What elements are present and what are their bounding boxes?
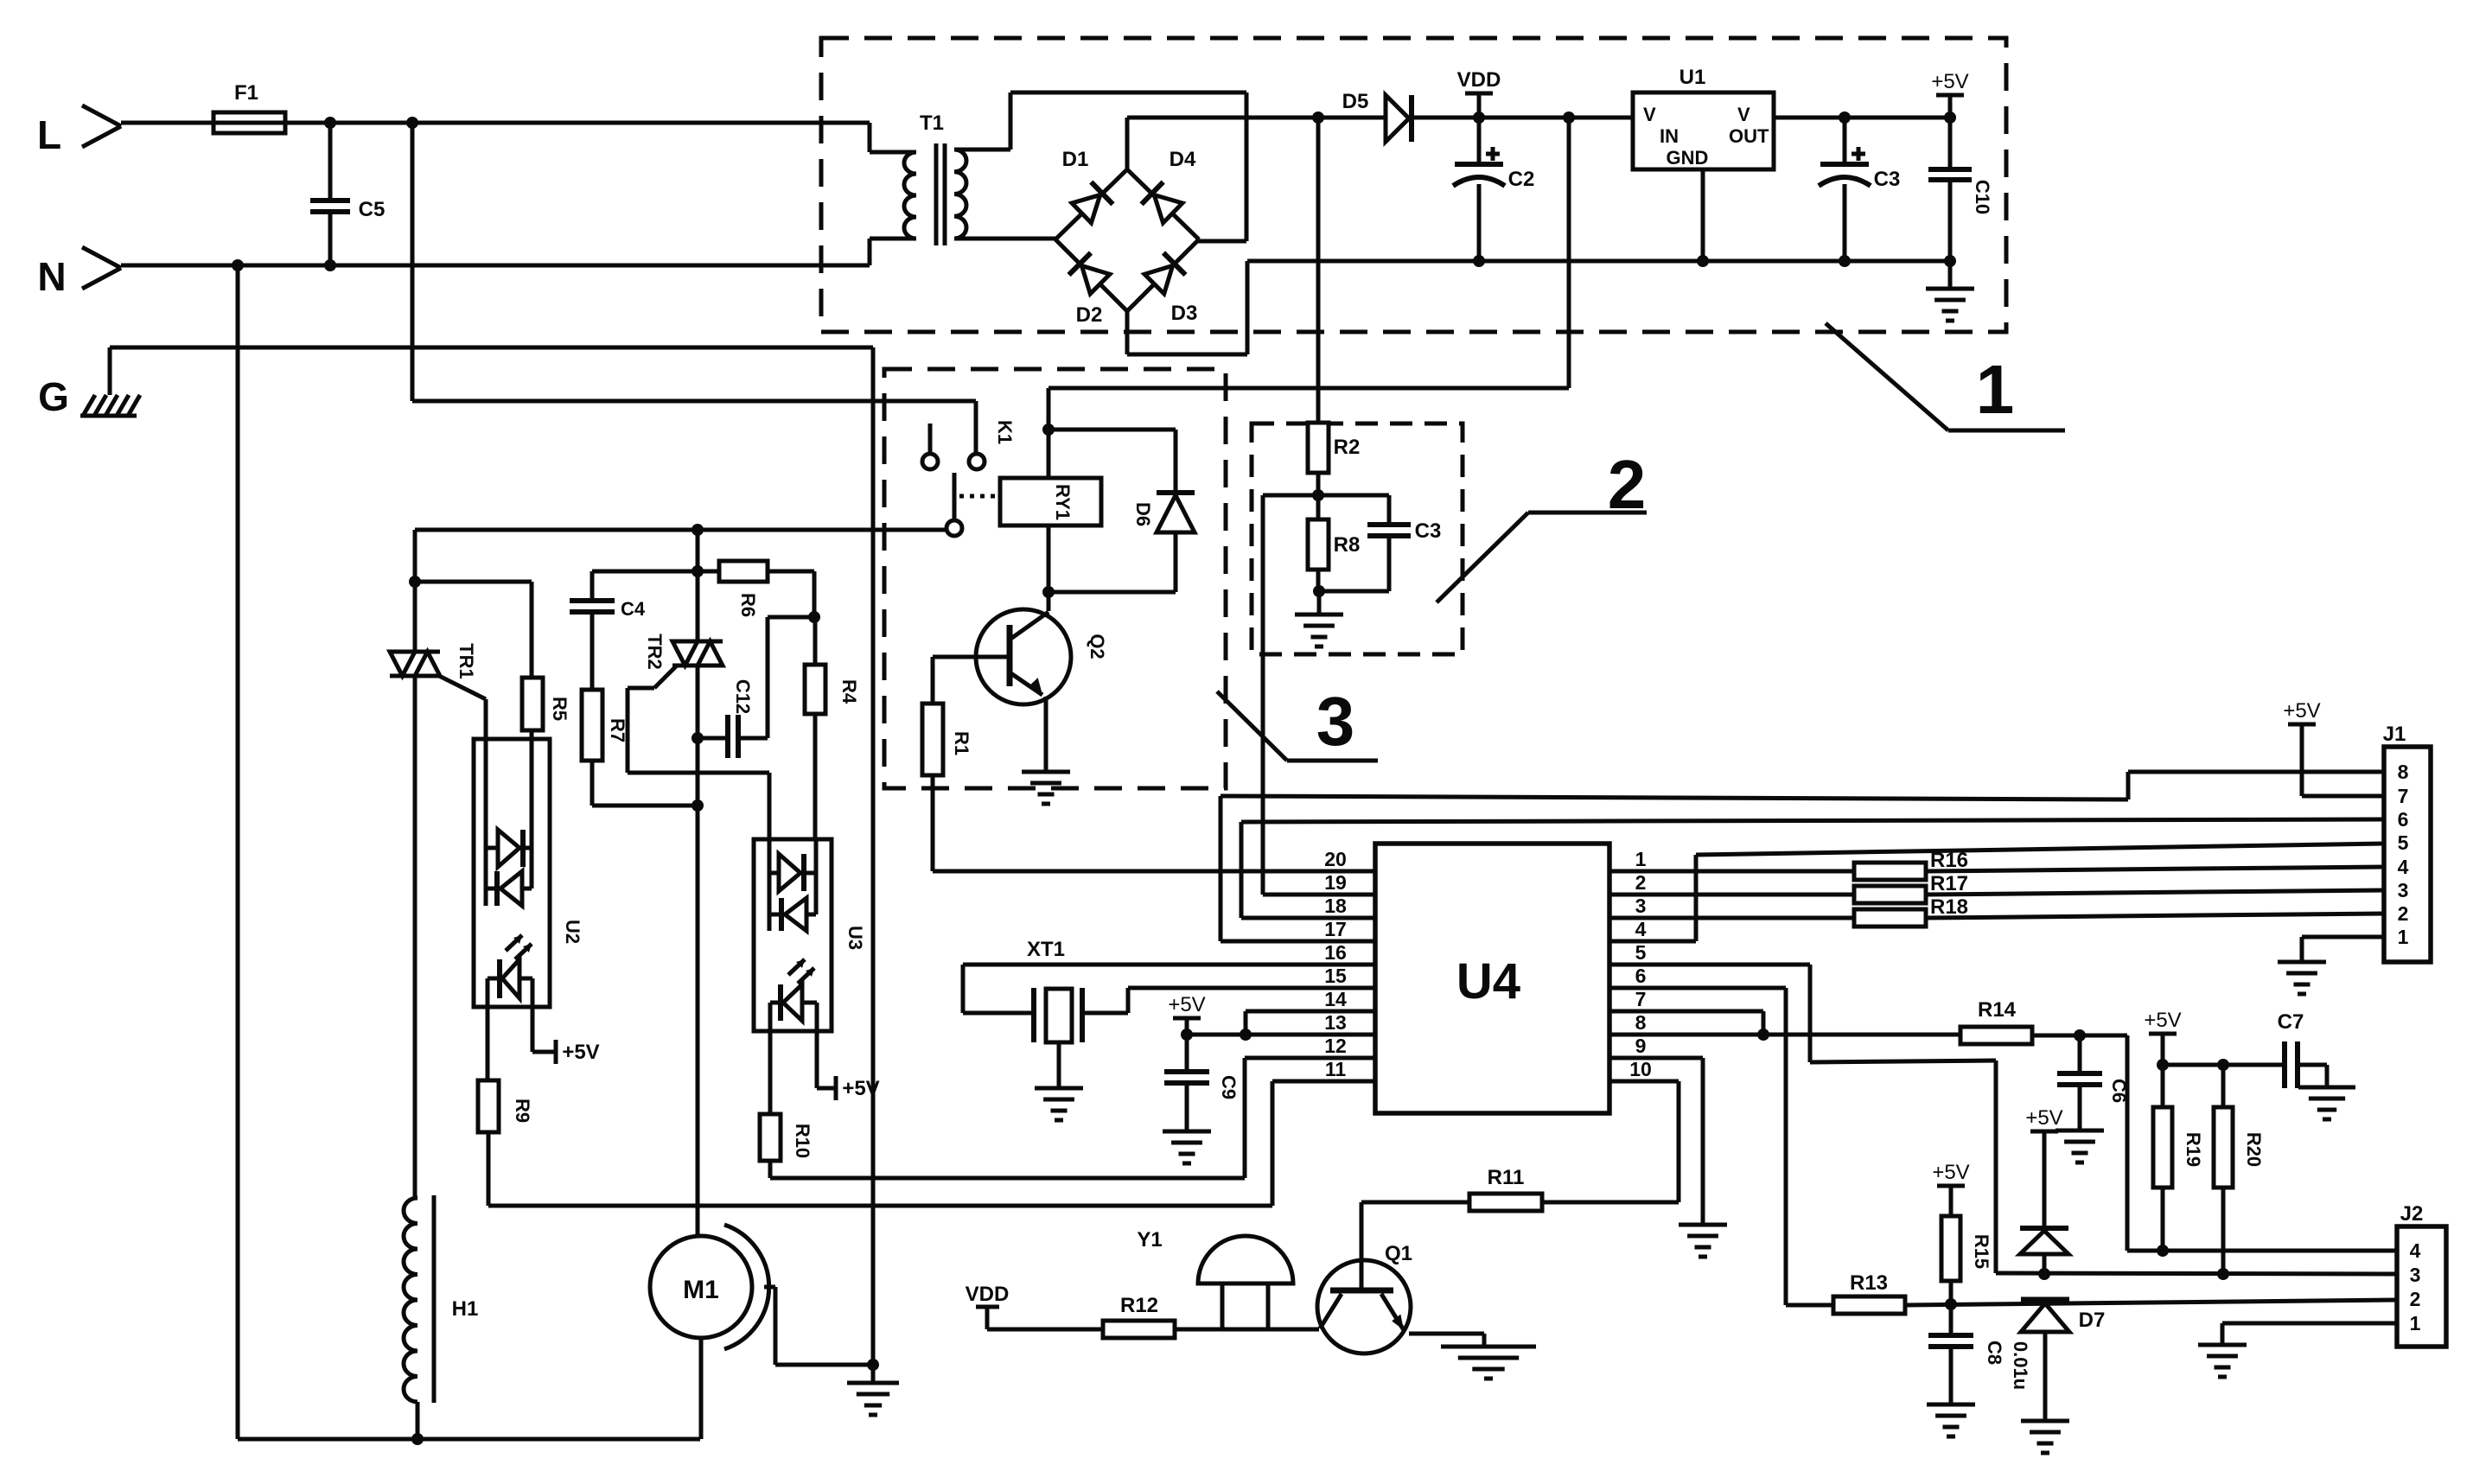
svg-text:V: V (1643, 104, 1656, 125)
dotted link to relay (959, 494, 998, 499)
svg-text:2: 2 (2398, 902, 2409, 925)
svg-text:M1: M1 (683, 1276, 719, 1304)
wire relay to Q2 (1047, 525, 1051, 611)
svg-text:6: 6 (2398, 808, 2409, 831)
wire relay coil top (1047, 388, 1051, 478)
resistor R13 (1833, 1296, 1905, 1314)
wire pin7 (1609, 1010, 1763, 1014)
svg-text:3: 3 (1316, 683, 1355, 760)
diode D2 (1069, 253, 1112, 296)
wire VDD rail (1127, 116, 1386, 120)
svg-text:+5V: +5V (2283, 699, 2320, 723)
wire secondary bottom (954, 237, 1055, 241)
svg-text:5: 5 (2398, 831, 2409, 854)
svg-text:C6: C6 (2108, 1079, 2130, 1103)
svg-text:+5V: +5V (1931, 70, 1968, 93)
wire U2 led cathode (488, 977, 500, 981)
svg-text:R10: R10 (792, 1124, 813, 1158)
svg-text:C10: C10 (1972, 180, 1993, 214)
svg-text:13: 13 (1324, 1011, 1347, 1034)
svg-text:D4: D4 (1170, 148, 1196, 171)
relay RY1 (1000, 478, 1101, 525)
wire pin2 to R17 (1609, 893, 1854, 897)
svg-text:R5: R5 (549, 697, 570, 721)
svg-text:0.01u: 0.01u (2010, 1341, 2031, 1390)
label 3 pointer (1217, 691, 1287, 761)
wire section1 ground rail (1247, 259, 1950, 264)
ground crystal (1057, 1042, 1061, 1088)
wire pin3 to R18 (1609, 916, 1854, 920)
resistor R19 (2161, 1065, 2165, 1107)
wire pin10 to R11 (1609, 1080, 1679, 1084)
svg-text:4: 4 (2398, 856, 2409, 878)
svg-text:C3: C3 (1874, 168, 1901, 191)
svg-text:R13: R13 (1850, 1271, 1888, 1295)
svg-text:R7: R7 (607, 718, 628, 742)
svg-text:D2: D2 (1076, 303, 1103, 327)
resistor R18 (1854, 909, 1926, 927)
svg-text:R11: R11 (1488, 1166, 1525, 1189)
wire R9 to pin11 rail (487, 1132, 491, 1206)
svg-text:R14: R14 (1978, 998, 2017, 1022)
buzzer Y1 (1198, 1236, 1293, 1283)
capacitor C8 (1949, 1304, 1954, 1335)
svg-text:Y1: Y1 (1137, 1228, 1162, 1252)
svg-text:1: 1 (2410, 1312, 2421, 1334)
wire Q1 emitter to gnd (1409, 1332, 1484, 1336)
triac TR1 (413, 582, 417, 652)
svg-text:R8: R8 (1334, 533, 1361, 557)
svg-text:G: G (38, 374, 69, 419)
resistor R7 (590, 612, 595, 690)
ground M1 frame (847, 1383, 899, 1415)
diode D1 (1071, 182, 1113, 225)
wire N return rail (236, 265, 240, 1439)
optocoupler U2 (474, 739, 550, 1007)
svg-text:16: 16 (1324, 941, 1347, 964)
optocoupler U3 (754, 839, 832, 1031)
resistor R15 (1941, 1216, 1960, 1281)
svg-text:R18: R18 (1930, 895, 1968, 919)
transformer T1 (904, 152, 916, 239)
power symbol VDD (1477, 93, 1482, 118)
wire VDD to relay (1567, 118, 1571, 388)
resistor R12 (1103, 1321, 1175, 1338)
svg-text:C9: C9 (1218, 1075, 1240, 1099)
svg-text:U3: U3 (845, 926, 866, 950)
svg-text:C12: C12 (732, 679, 754, 714)
svg-text:+5V: +5V (2025, 1106, 2062, 1130)
resistor R20 (2221, 1065, 2226, 1107)
svg-text:C4: C4 (621, 598, 646, 620)
resistor R14 (1960, 1027, 2032, 1044)
fuse F1 (214, 112, 285, 133)
svg-text:+5V: +5V (562, 1041, 599, 1064)
svg-text:TR1: TR1 (456, 643, 477, 679)
svg-text:VDD: VDD (1457, 68, 1501, 92)
wire TR1 gate (439, 676, 486, 699)
svg-text:2: 2 (1608, 446, 1647, 523)
svg-text:R9: R9 (512, 1099, 533, 1123)
power symbol +5V r2 (2025, 1106, 2062, 1131)
svg-text:+5V: +5V (1932, 1161, 1969, 1184)
resistor R1 (931, 657, 935, 704)
svg-text:R2: R2 (1334, 436, 1361, 459)
wire divider node (1316, 473, 1321, 495)
svg-text:F1: F1 (234, 81, 258, 105)
capacitor C6 (2078, 1035, 2082, 1073)
crystal XT1 (963, 963, 1375, 967)
svg-text:1: 1 (1635, 848, 1647, 870)
label 2 pointer (1437, 513, 1528, 602)
mcu U4 (1375, 844, 1609, 1113)
svg-text:4: 4 (1635, 918, 1647, 940)
resistor R10 (760, 1114, 781, 1161)
svg-text:C8: C8 (1984, 1341, 2005, 1365)
wire Q2 emitter to gnd (1044, 697, 1048, 772)
wire pin6 to R13 (1609, 986, 1786, 990)
wire L branch down to switch (411, 123, 415, 401)
svg-text:+5V: +5V (842, 1077, 879, 1100)
wire bridge dc to R2 (1316, 118, 1321, 423)
svg-text:18: 18 (1324, 895, 1347, 917)
svg-text:T1: T1 (920, 111, 944, 135)
ground (1948, 261, 1953, 289)
switch K1 (928, 424, 933, 454)
wire G rail (108, 347, 112, 395)
capacitor C12 (698, 736, 726, 741)
svg-text:14: 14 (1324, 988, 1347, 1010)
diode D3 (1144, 253, 1186, 296)
wire section2 output to U4 pin19 (1261, 495, 1265, 895)
wire U2 led anode to +5V (519, 977, 532, 981)
svg-text:19: 19 (1324, 871, 1347, 894)
svg-text:10: 10 (1629, 1058, 1652, 1080)
capacitor C4 (592, 570, 698, 574)
wire M1 brush to gnd (764, 1285, 775, 1290)
capacitor C2 (1477, 118, 1482, 164)
resistor R2 (1308, 423, 1329, 473)
svg-text:9: 9 (1635, 1035, 1647, 1057)
svg-text:R17: R17 (1930, 872, 1968, 895)
svg-text:R19: R19 (2183, 1132, 2204, 1167)
regulator U1 (1633, 92, 1774, 169)
svg-text:6: 6 (1635, 965, 1647, 987)
section 3 dashed box (884, 369, 1226, 788)
wire pin5 to J2 pin3 (1609, 963, 1810, 967)
wire pole node to TR2 (696, 530, 700, 640)
svg-text:11: 11 (1325, 1058, 1347, 1080)
section 1 dashed box (821, 38, 2006, 332)
wire bridge top to rail (1125, 118, 1130, 169)
svg-text:J2: J2 (2400, 1202, 2424, 1226)
diode D5 (1386, 95, 1409, 142)
resistor R6 (698, 570, 719, 574)
svg-text:Q2: Q2 (1087, 634, 1108, 659)
wire (121, 264, 870, 268)
svg-text:3: 3 (1635, 895, 1647, 917)
svg-text:17: 17 (1324, 918, 1347, 940)
wire to J2 pin4 (2126, 1035, 2130, 1251)
wire pin4 to J1 pin5 (1609, 939, 1696, 944)
svg-text:N: N (37, 254, 66, 299)
wire TR2 gate (654, 666, 677, 688)
svg-text:RY1: RY1 (1052, 484, 1074, 520)
resistor R5 (415, 580, 532, 584)
resistor R8 (1316, 495, 1321, 519)
power symbol +5V r3 (1932, 1161, 1969, 1186)
triac TR2 (672, 640, 723, 644)
capacitor C5 (328, 123, 333, 201)
svg-text:5: 5 (1635, 941, 1647, 964)
svg-text:IN: IN (1660, 125, 1679, 147)
diode D4 (1142, 182, 1184, 225)
svg-text:Q1: Q1 (1385, 1242, 1412, 1265)
wire +5V output rail (1774, 116, 1950, 120)
resistor R16 (1854, 863, 1926, 880)
svg-text:R6: R6 (737, 593, 759, 617)
wire Q2 base (933, 655, 1010, 659)
svg-text:R20: R20 (2243, 1132, 2265, 1167)
svg-text:8: 8 (2398, 761, 2409, 783)
svg-text:R1: R1 (951, 731, 972, 755)
svg-text:C3: C3 (1415, 519, 1442, 543)
motor M1 (650, 1236, 752, 1338)
wire J1 pin1 gnd (2302, 935, 2384, 939)
capacitor C9 (1185, 1035, 1189, 1072)
wire pin13 +5V (1187, 1033, 1375, 1037)
svg-text:XT1: XT1 (1027, 938, 1065, 961)
svg-text:15: 15 (1324, 965, 1347, 987)
svg-text:R15: R15 (1971, 1234, 1992, 1269)
wire base rail (987, 1328, 1103, 1332)
heater H1 (404, 1198, 417, 1402)
svg-text:1: 1 (1976, 351, 2015, 428)
wire pin9 to gnd (1609, 1056, 1703, 1060)
svg-text:C2: C2 (1508, 168, 1535, 191)
svg-text:3: 3 (2410, 1264, 2421, 1286)
capacitor C3b (1387, 495, 1392, 525)
svg-text:D3: D3 (1171, 302, 1198, 325)
capacitor C3 (1843, 118, 1847, 164)
svg-text:V: V (1737, 104, 1750, 125)
svg-text:GND: GND (1667, 147, 1709, 169)
wire U1 gnd pin (1701, 169, 1705, 261)
wire U3 led anode to +5V (802, 1001, 817, 1005)
svg-text:12: 12 (1324, 1035, 1347, 1057)
wire H1 bottom (416, 1402, 420, 1439)
svg-text:R12: R12 (1120, 1294, 1158, 1317)
section 2 dashed box (1252, 424, 1463, 654)
wire (285, 121, 870, 125)
ground hatch (80, 414, 137, 418)
svg-text:H1: H1 (452, 1297, 479, 1321)
wire pin18 to J1 pin6 (1241, 916, 1375, 920)
wire switch pole (415, 528, 946, 532)
svg-text:C5: C5 (359, 198, 386, 221)
wire pole to TR1/TR2 top (413, 530, 417, 582)
wire TR2 down to M1 (696, 666, 700, 1234)
svg-text:3: 3 (2398, 879, 2409, 901)
wire TR1 to H1 (413, 676, 417, 1198)
wire pin1 to R16 (1609, 869, 1854, 874)
wire R10 to U4 pin12 (768, 1161, 773, 1178)
connector J2 (2397, 1226, 2446, 1347)
svg-text:7: 7 (1635, 988, 1647, 1010)
power symbol +5V r1 (2144, 1009, 2181, 1034)
svg-text:D5: D5 (1342, 90, 1369, 113)
wire J2 pin1 gnd (2222, 1322, 2397, 1326)
wire pin8 to R14 (1609, 1033, 1960, 1037)
svg-text:J1: J1 (2383, 723, 2406, 746)
wire pin11 rail (488, 1204, 1272, 1208)
bridge diamond wires (1055, 169, 1127, 239)
wire (121, 121, 214, 125)
svg-text:D7: D7 (2079, 1309, 2106, 1332)
svg-text:U2: U2 (562, 920, 583, 944)
wire U3 led cathode (770, 1001, 781, 1005)
svg-text:L: L (37, 112, 61, 157)
wire R1 to U4 pin20 (931, 775, 935, 871)
resistor R11 (1469, 1194, 1542, 1211)
resistor R4 (813, 617, 818, 665)
svg-text:C7: C7 (2278, 1010, 2304, 1034)
wire M1 bottom (699, 1338, 704, 1439)
wire pin17 to J1 pin8 (1221, 939, 1375, 944)
svg-text:OUT: OUT (1729, 125, 1769, 147)
svg-text:2: 2 (2410, 1288, 2421, 1310)
power symbol +5V (1931, 70, 1968, 95)
svg-text:7: 7 (2398, 785, 2409, 807)
svg-text:D1: D1 (1062, 148, 1089, 171)
wire pin14 (1246, 1010, 1375, 1014)
resistor R17 (1854, 886, 1926, 903)
svg-text:+5V: +5V (1168, 993, 1205, 1016)
svg-text:20: 20 (1324, 848, 1347, 870)
wire Q1 collector to R11 (1361, 1201, 1469, 1205)
capacitor C7 (2282, 1041, 2287, 1088)
svg-text:+5V: +5V (2144, 1009, 2181, 1032)
power symbol +5V J1 (2283, 699, 2320, 724)
ground (1317, 591, 1322, 615)
svg-text:U4: U4 (1456, 953, 1520, 1010)
svg-text:2: 2 (1635, 871, 1647, 894)
capacitor C10 (1948, 118, 1953, 169)
svg-text:1: 1 (2398, 926, 2409, 948)
svg-text:4: 4 (2410, 1239, 2421, 1262)
svg-text:TR2: TR2 (644, 634, 666, 670)
svg-text:8: 8 (1635, 1011, 1647, 1034)
svg-text:R4: R4 (838, 679, 860, 704)
diode D6b (2020, 1226, 2068, 1231)
transistor Q1 (1317, 1260, 1411, 1353)
diode D7 (2021, 1297, 2069, 1303)
svg-text:D6: D6 (1132, 502, 1154, 526)
resistor R9 (478, 1080, 499, 1132)
transistor Q2 (976, 609, 1071, 704)
diode D6 (1048, 428, 1176, 432)
wire secondary top (954, 148, 1010, 152)
svg-text:VDD: VDD (966, 1283, 1010, 1306)
svg-text:U1: U1 (1679, 66, 1706, 89)
svg-text:K1: K1 (994, 420, 1016, 444)
wire bridge bottom to gnd rail (1125, 311, 1130, 354)
connector J1 (2384, 747, 2431, 962)
label 1 pointer (1826, 323, 1948, 430)
